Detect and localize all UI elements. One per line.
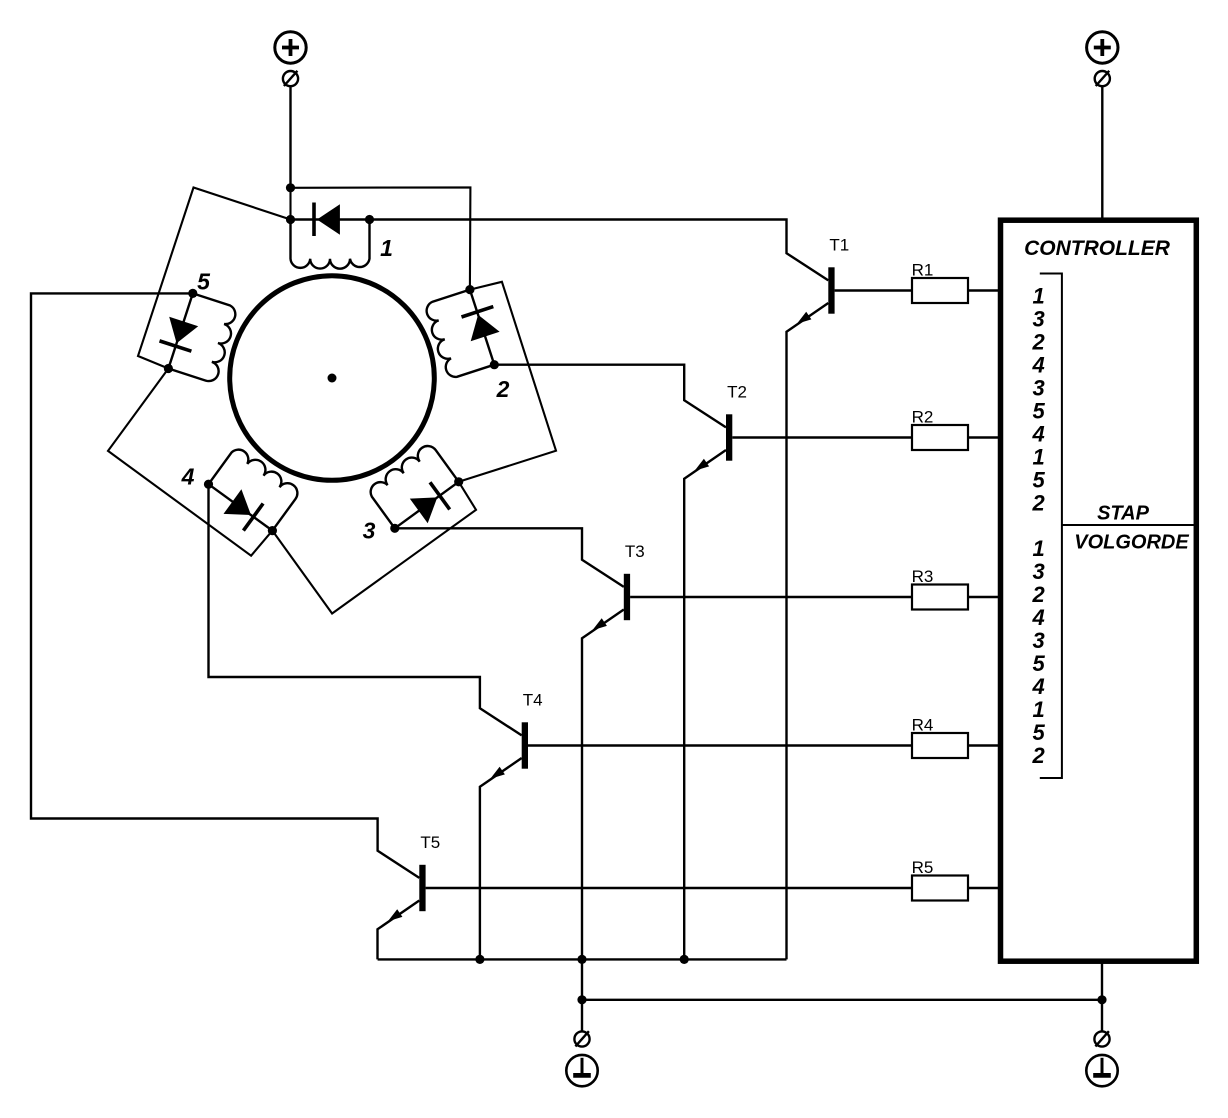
bus junction nodes <box>475 955 484 964</box>
winding 5 terminal nodes <box>164 364 173 373</box>
controller box <box>1001 220 1197 961</box>
svg-text:4: 4 <box>1031 422 1044 447</box>
svg-text:5: 5 <box>197 269 211 295</box>
winding 3 flyback diode <box>395 482 459 529</box>
winding 3 coil <box>371 446 459 528</box>
resistor R3 <box>912 585 968 610</box>
wire winding5-B to winding4-R <box>108 369 272 556</box>
T4 emitter arrow <box>490 767 505 779</box>
wire power-left down to node <box>289 86 291 188</box>
svg-text:4: 4 <box>1031 674 1044 699</box>
T5 emitter <box>378 901 420 960</box>
STAP VOLGORDE divider <box>1062 524 1196 526</box>
R5 to controller wire <box>968 887 1000 889</box>
svg-text:T3: T3 <box>625 542 645 561</box>
T3 emitter arrow <box>592 618 607 630</box>
motor shaft center dot <box>328 374 337 383</box>
winding 4 terminal nodes <box>268 526 277 535</box>
svg-text:2: 2 <box>1031 582 1045 607</box>
resistor R4 <box>912 733 968 758</box>
wire winding1-L to winding5-B <box>138 188 291 369</box>
svg-text:VOLGORDE: VOLGORDE <box>1074 532 1189 554</box>
winding 2 coil <box>427 290 495 377</box>
svg-text:4: 4 <box>1031 353 1044 378</box>
svg-text:1: 1 <box>1032 536 1044 561</box>
winding 2 terminal nodes <box>465 285 474 294</box>
R3 to controller wire <box>968 596 1000 598</box>
resistor R2 <box>912 425 968 450</box>
svg-text:T2: T2 <box>727 383 747 402</box>
svg-text:3: 3 <box>1032 307 1044 332</box>
wire power-right to controller <box>1101 86 1103 219</box>
T1 base wire <box>835 289 912 291</box>
wire winding1 to T1 collector <box>370 220 829 281</box>
svg-text:4: 4 <box>181 464 195 490</box>
T4 emitter <box>480 758 522 959</box>
wire winding2 to T2 collector <box>494 365 726 428</box>
T1 emitter <box>787 303 829 959</box>
R4 to controller wire <box>968 744 1000 746</box>
svg-text:T5: T5 <box>420 833 440 852</box>
transistor T1 <box>828 267 834 313</box>
earth ground symbol left <box>566 1055 597 1086</box>
winding 4 flyback diode <box>209 484 273 530</box>
winding 5 flyback diode <box>168 293 192 368</box>
transistor T5 <box>419 865 425 911</box>
svg-text:2: 2 <box>1031 330 1045 355</box>
power node <box>286 183 295 192</box>
transistor T3 <box>624 574 630 620</box>
step sequence numbers group 2 <box>1031 536 1045 768</box>
svg-text:2: 2 <box>496 376 510 402</box>
winding 3 terminal nodes <box>454 477 463 486</box>
svg-text:1: 1 <box>380 235 393 261</box>
svg-text:2: 2 <box>1031 743 1045 768</box>
ground bus wire <box>582 999 1102 1001</box>
wire bus to ground-left <box>581 959 583 1031</box>
T1 emitter arrow <box>797 312 812 324</box>
wire winding3-R to winding2-T <box>459 282 556 482</box>
earth ground symbol right <box>1086 1055 1117 1086</box>
svg-text:5: 5 <box>1032 399 1045 424</box>
R2 to controller wire <box>968 436 1000 438</box>
svg-text:STAP: STAP <box>1097 503 1150 525</box>
winding 5 coil <box>168 293 235 381</box>
svg-text:5: 5 <box>1032 468 1045 493</box>
step sequence bracket <box>1040 274 1062 779</box>
svg-text:T4: T4 <box>523 691 543 710</box>
winding 4 coil <box>209 450 298 531</box>
T3 emitter <box>582 610 624 960</box>
svg-text:1: 1 <box>1032 445 1044 470</box>
power supply + symbol right <box>1087 32 1118 63</box>
winding 1 flyback diode <box>291 218 370 220</box>
svg-text:5: 5 <box>1032 651 1045 676</box>
power supply + symbol left <box>275 32 306 63</box>
svg-text:R4: R4 <box>912 716 934 735</box>
svg-text:3: 3 <box>1032 376 1044 401</box>
svg-text:3: 3 <box>1032 559 1044 584</box>
svg-text:3: 3 <box>363 518 376 544</box>
winding 2 flyback diode <box>470 290 494 365</box>
svg-text:T1: T1 <box>829 236 849 255</box>
T3 base wire <box>630 596 912 598</box>
svg-text:CONTROLLER: CONTROLLER <box>1024 237 1171 260</box>
T2 emitter <box>684 450 726 959</box>
resistor R1 <box>912 278 968 303</box>
connector pin symbol bottom-right <box>1094 1031 1109 1046</box>
T2 base wire <box>732 436 912 438</box>
R1 to controller wire <box>968 289 1000 291</box>
connector pin symbol top-right <box>1095 71 1110 86</box>
svg-text:R1: R1 <box>912 261 934 280</box>
svg-text:R3: R3 <box>912 567 934 586</box>
svg-text:R5: R5 <box>912 858 934 877</box>
winding 1 terminal nodes <box>286 215 295 224</box>
svg-text:R2: R2 <box>912 408 934 427</box>
wire winding4-R to winding3-R <box>272 482 476 614</box>
winding 1 coil <box>291 220 370 269</box>
T4 base wire <box>528 744 912 746</box>
ground bus nodes <box>577 995 586 1004</box>
emitter bus wire <box>378 958 787 960</box>
transistor T2 <box>726 414 732 460</box>
T5 emitter arrow <box>388 909 403 921</box>
T5 base wire <box>426 887 912 889</box>
wire winding2-T to power node and winding1-L <box>291 187 471 289</box>
wire winding3 to T3 collector <box>395 528 624 587</box>
svg-text:1: 1 <box>1032 697 1044 722</box>
wire winding4 to T4 collector <box>209 484 522 735</box>
transistor T4 <box>522 722 528 768</box>
svg-text:3: 3 <box>1032 628 1044 653</box>
resistor R5 <box>912 876 968 901</box>
motor rotor circle <box>230 276 435 481</box>
T2 emitter arrow <box>695 459 710 471</box>
wire controller to ground-right <box>1101 961 1103 1031</box>
connector pin symbol bottom-left <box>574 1031 589 1046</box>
svg-text:4: 4 <box>1031 605 1044 630</box>
svg-text:5: 5 <box>1032 720 1045 745</box>
connector pin symbol top-left <box>283 71 298 86</box>
step sequence numbers group 1 <box>1031 284 1045 516</box>
svg-text:2: 2 <box>1031 491 1045 516</box>
wire winding5 to T5 collector <box>31 293 419 878</box>
svg-text:1: 1 <box>1032 284 1044 309</box>
